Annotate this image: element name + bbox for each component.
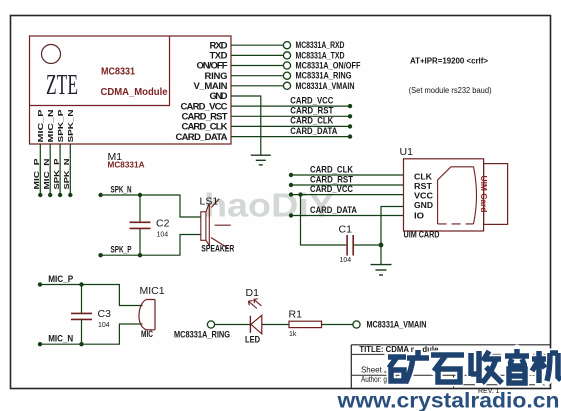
svg-text:LS1: LS1 — [200, 195, 219, 207]
net labels on bottom stubs (rotated) — [34, 158, 71, 189]
svg-text:MIC_N: MIC_N — [44, 159, 51, 190]
ZTE logo circle — [42, 45, 61, 64]
svg-text:MC8331A_RXD: MC8331A_RXD — [296, 40, 345, 50]
wire MC8331A_RING — [231, 75, 283, 77]
junction dot CARD_CLK left — [289, 173, 293, 177]
watermark blue chinese characters (white halo) — [388, 349, 561, 383]
wire C3 bottom lead — [81, 320, 83, 345]
svg-text:AT+IPR=19200 <crlf>: AT+IPR=19200 <crlf> — [410, 56, 488, 65]
wire CARD_DATA upper — [231, 136, 350, 138]
wire C1 to GND node — [354, 244, 381, 246]
speaker LS1 sound ray down — [211, 238, 229, 249]
junction dot SPK_N at C2 — [138, 193, 142, 197]
svg-text:1k: 1k — [289, 331, 297, 338]
svg-text:CDMA_Module: CDMA_Module — [101, 87, 168, 98]
svg-text:LED: LED — [245, 335, 260, 345]
wire CARD_VCC upper — [231, 105, 350, 107]
wire CARD_CLK upper — [231, 125, 350, 127]
wire SPK_P module stub down — [59, 144, 61, 195]
dot MIC_N left end — [38, 342, 42, 346]
wire CARD_DATA to U1 IO — [291, 215, 404, 217]
junction dot CARD_DATA left — [289, 213, 293, 217]
svg-text:www.crystalradio.cn: www.crystalradio.cn — [336, 390, 559, 411]
port circle MC8331A_VMAIN (bottom) — [353, 321, 360, 328]
wire MIC_N module stub down — [49, 144, 51, 195]
svg-text:R1: R1 — [289, 308, 303, 320]
junction dot CARD_VCC left — [289, 192, 293, 196]
wire R1 to VMAIN circle — [322, 324, 353, 326]
module M1 body box — [30, 36, 232, 144]
wire MIC_P — [40, 285, 143, 306]
svg-text:SPK_N: SPK_N — [111, 185, 132, 195]
svg-text:SPK_P: SPK_P — [54, 158, 61, 189]
svg-text:IO: IO — [414, 212, 424, 221]
junction dot MIC_N at C3 — [79, 342, 83, 346]
svg-text:C1: C1 — [339, 224, 353, 236]
svg-text:CARD_CLK: CARD_CLK — [290, 116, 333, 126]
svg-text:MIC_P: MIC_P — [34, 158, 41, 189]
speaker LS1 magnet rectangle — [201, 212, 206, 241]
svg-text:SPK_N: SPK_N — [68, 110, 75, 143]
svg-text:104: 104 — [157, 231, 169, 238]
dot SPK_N left end — [98, 193, 102, 197]
port circle MC8331A_RING — [283, 72, 290, 79]
module bottom pin names (rotated) — [38, 109, 75, 142]
port circle MC8331A_RING (bottom) — [207, 321, 214, 328]
capacitor C3 plates — [71, 312, 92, 314]
wire MIC_N — [40, 324, 143, 344]
svg-text:CLK: CLK — [414, 173, 432, 182]
svg-text:UIM CARD: UIM CARD — [404, 230, 440, 240]
port circle MC8331A_TXD — [283, 52, 290, 59]
wire SPK_N module stub down — [69, 144, 71, 195]
junction dot CARD_RST left — [289, 183, 293, 187]
wire MC8331A_RXD — [231, 44, 283, 46]
svg-text:CARD_CLK: CARD_CLK — [310, 164, 353, 174]
svg-text:MC8331A_RING: MC8331A_RING — [296, 71, 352, 81]
svg-text:(Set module rs232 baud): (Set module rs232 baud) — [409, 86, 492, 95]
junction dot GND node — [379, 243, 384, 248]
wire GND node up to U1 GND pin — [381, 207, 404, 265]
wire C2 top lead — [139, 195, 141, 222]
U1 pin names — [414, 173, 433, 221]
speaker LS1 cone mouth — [206, 203, 209, 245]
ground symbol (module GND) — [251, 155, 271, 165]
speaker LS1 sound ray mid — [215, 224, 231, 226]
dot MIC_P left end — [38, 282, 42, 286]
wire CARD_CLK to U1 — [291, 174, 404, 176]
svg-text:MC8331A_VMAIN: MC8331A_VMAIN — [367, 320, 427, 330]
port circle MC8331A_ON/OFF — [283, 62, 290, 69]
title block frame — [351, 345, 550, 389]
svg-text:MIC_N: MIC_N — [48, 110, 55, 143]
wire MC8331A_ON/OFF — [231, 65, 283, 67]
LED D1 triangle — [251, 315, 262, 334]
title block divider under TITLE — [351, 353, 550, 355]
junction dot CARD_CLK upper — [348, 124, 352, 128]
wire MC8331A_VMAIN — [231, 85, 283, 87]
svg-text:RST: RST — [414, 182, 432, 191]
svg-text:MIC_P: MIC_P — [38, 109, 45, 142]
wire C1 branch from CARD_VCC — [301, 195, 347, 245]
watermark blue chinese characters 矿石收音机 — [388, 349, 561, 383]
port circle MC8331A_VMAIN — [283, 82, 290, 89]
wire MC8331A_TXD — [231, 54, 283, 56]
ground symbol (UIM) — [371, 265, 392, 275]
junction dot CARD_VCC upper — [348, 104, 352, 108]
svg-text:C3: C3 — [98, 308, 112, 320]
UIM card slot rectangle — [484, 164, 508, 225]
svg-text:MIC_P: MIC_P — [48, 274, 73, 284]
svg-text:ZTE: ZTE — [46, 69, 78, 101]
junction dot CARD_VCC branch — [298, 192, 302, 196]
module right-side pin names — [176, 40, 228, 142]
wire MIC_P module stub down — [39, 144, 41, 195]
svg-text:CARD_DATA: CARD_DATA — [310, 205, 357, 215]
svg-text:104: 104 — [340, 257, 352, 264]
speaker LS1 sound ray up — [211, 199, 219, 208]
svg-text:SPK_N: SPK_N — [64, 159, 71, 190]
svg-text:SPK_P: SPK_P — [111, 245, 132, 255]
svg-text:MIC: MIC — [141, 329, 153, 339]
capacitor C1 plates — [346, 235, 348, 256]
resistor R1 body — [289, 321, 322, 327]
UIM card drawing (chamfered card) — [438, 167, 474, 224]
svg-text:MIC1: MIC1 — [140, 285, 165, 297]
wire CARD_RST upper — [231, 115, 350, 117]
svg-text:MC8331A_TXD: MC8331A_TXD — [296, 50, 345, 60]
junction dot MIC_P at C3 — [79, 282, 83, 286]
svg-text:D1: D1 — [246, 287, 260, 299]
svg-text:MC8331A: MC8331A — [108, 161, 145, 170]
junction dot CARD_DATA upper — [348, 134, 352, 138]
junction dot CARD_RST upper — [348, 114, 352, 118]
svg-text:VCC: VCC — [414, 192, 433, 201]
dot SPK_P left end — [98, 253, 102, 257]
svg-text:104: 104 — [98, 322, 110, 329]
wire LED to R1 — [262, 324, 289, 326]
svg-text:MC8331A_RING: MC8331A_RING — [174, 329, 230, 339]
microphone MIC1 body — [139, 300, 155, 330]
title block divider above author — [351, 374, 550, 376]
svg-text:MC8331: MC8331 — [101, 67, 135, 78]
svg-text:UIM Card: UIM Card — [479, 176, 488, 213]
svg-text:GND: GND — [414, 201, 433, 210]
svg-text:MC8331A_VMAIN: MC8331A_VMAIN — [296, 81, 355, 91]
junction dots at stub ends — [38, 193, 42, 197]
svg-text:SPEAKER: SPEAKER — [201, 243, 234, 253]
svg-text:CARD_VCC: CARD_VCC — [290, 95, 333, 105]
wire ring circle to LED — [215, 324, 251, 326]
junction dot SPK_P at C2 — [138, 253, 142, 257]
svg-text:CARD_RST: CARD_RST — [310, 174, 353, 184]
svg-text:SPK_P: SPK_P — [58, 109, 65, 142]
svg-text:CARD_DATA: CARD_DATA — [290, 126, 337, 136]
LED D1 cathode bar — [249, 316, 251, 333]
svg-text:CARD_RST: CARD_RST — [290, 106, 333, 116]
LED D1 emission arrows — [248, 301, 257, 309]
svg-text:C2: C2 — [156, 217, 170, 229]
svg-text:CARD_DATA: CARD_DATA — [176, 132, 228, 143]
wire GND pin to ground — [231, 96, 261, 155]
svg-text:MIC_N: MIC_N — [48, 334, 73, 344]
svg-text:CARD_VCC: CARD_VCC — [310, 184, 353, 194]
ZTE logo inner box — [30, 36, 170, 106]
wire CARD_RST to U1 — [291, 184, 404, 186]
UIM card dashed bottom edge — [438, 223, 474, 225]
svg-text:MC8331A_ON/OFF: MC8331A_ON/OFF — [296, 61, 361, 71]
port circle MC8331A_RXD — [283, 42, 290, 49]
wire CARD_VCC to U1 — [291, 194, 404, 196]
UIM card curved edge — [474, 167, 477, 224]
wire SPK_N — [101, 195, 201, 217]
connector U1 body — [404, 159, 484, 231]
wire SPK_P — [101, 235, 201, 256]
capacitor C2 plates — [130, 221, 151, 223]
wire C3 top lead — [81, 285, 83, 314]
svg-text:U1: U1 — [400, 146, 414, 158]
wire C2 bottom lead — [139, 229, 141, 256]
title block rev box — [454, 375, 551, 388]
